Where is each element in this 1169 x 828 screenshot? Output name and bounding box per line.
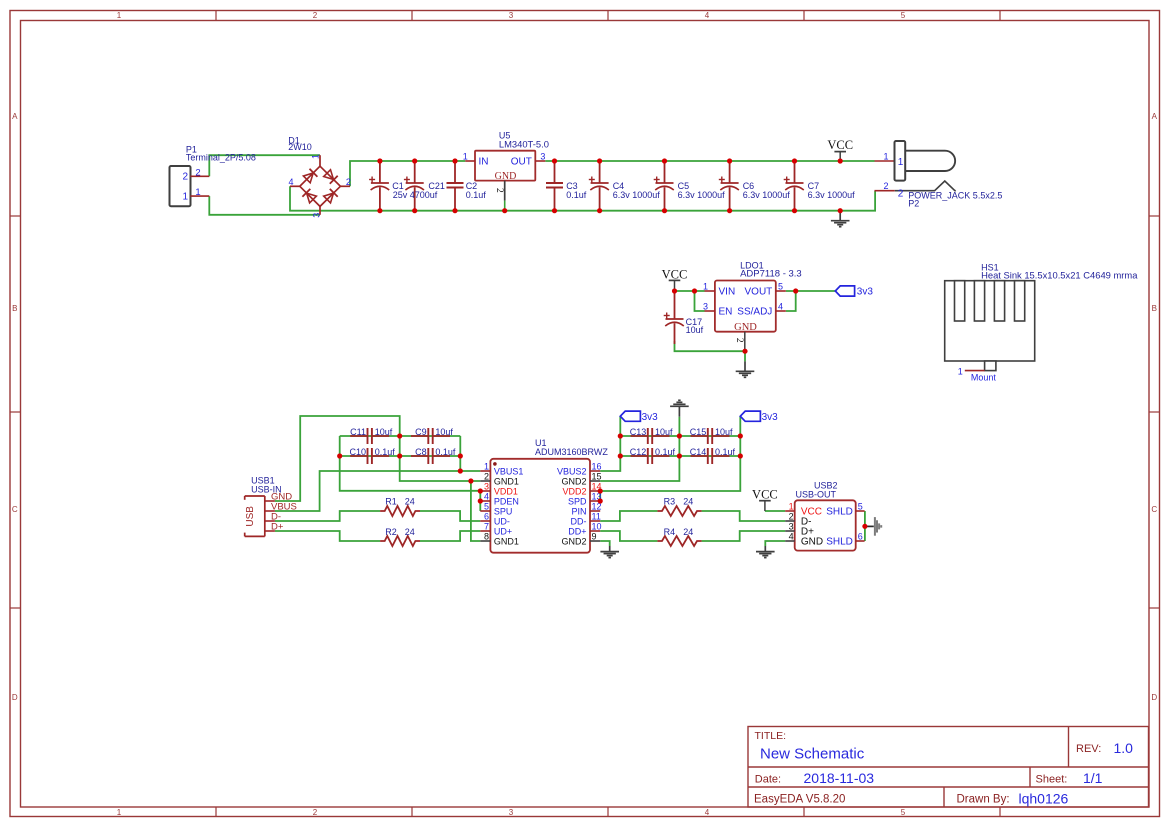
wire cap row C13-C15 [620,435,740,437]
connector P2 POWER_JACK 5.5x2.5 [875,141,1003,209]
svg-text:DD-: DD- [571,516,587,526]
wire VDD2 bus to 3v3 column [600,416,740,491]
svg-text:2: 2 [494,188,504,193]
svg-text:2: 2 [484,472,489,482]
svg-text:ADUM3160BRWZ: ADUM3160BRWZ [535,447,608,457]
svg-text:VCC: VCC [752,488,778,502]
svg-text:UD+: UD+ [494,526,512,536]
heat sink HS1 [945,263,1139,383]
svg-text:4: 4 [288,177,293,187]
svg-text:1: 1 [117,808,122,817]
svg-text:R2: R2 [385,527,397,537]
svg-text:USB-OUT: USB-OUT [796,490,837,500]
capacitor C14 0.1uf [690,447,736,464]
capacitor C4 6.3v 1000uf [589,161,660,211]
ground (LDO) [736,351,755,377]
svg-text:C12: C12 [630,447,647,457]
svg-text:VIN: VIN [719,286,736,297]
svg-text:VBUS1: VBUS1 [494,466,524,476]
svg-text:3v3: 3v3 [642,412,659,423]
svg-text:Date:: Date: [755,774,781,786]
svg-text:GND: GND [801,536,823,547]
svg-text:Sheet:: Sheet: [1036,774,1068,786]
svg-text:24: 24 [405,496,415,506]
svg-text:GND1: GND1 [494,536,519,546]
wire USB1 VBUS to U1 VBUS1 [275,471,480,511]
wire P1.1 to D1.3 [209,196,320,215]
svg-text:4: 4 [705,11,710,20]
capacitor C8 0.1uf [411,447,456,464]
svg-text:VCC: VCC [827,138,853,152]
wire VCC to USB2 [765,510,785,512]
wire P1.2 to D1.1 [209,155,320,176]
svg-text:2: 2 [182,172,188,183]
junction dots power rails [377,158,843,213]
connector P1 Terminal_2P/5.08 [170,145,256,207]
ground (U1 pin9) [600,546,619,558]
svg-text:2: 2 [195,167,200,178]
svg-text:3: 3 [540,151,545,161]
svg-text:8: 8 [484,532,489,542]
capacitor C2 0.1uf [447,161,487,211]
wire EN tie [695,291,705,311]
svg-text:B: B [1152,304,1157,313]
svg-text:4: 4 [705,808,710,817]
net flag VCC (USB2) [752,488,778,511]
svg-text:C13: C13 [630,427,647,437]
svg-text:ADP7118 - 3.3: ADP7118 - 3.3 [740,269,802,280]
svg-text:5: 5 [484,502,489,512]
wire cap row C12-C14 [620,455,740,457]
svg-text:1: 1 [883,151,888,161]
svg-text:GND: GND [734,322,757,333]
svg-text:3: 3 [484,482,489,492]
capacitor C7 6.3v 1000uf [784,161,855,211]
wire SHLD tie [864,511,866,541]
svg-text:1: 1 [182,192,188,203]
svg-text:0.1uf: 0.1uf [655,447,676,457]
svg-text:POWER_JACK 5.5x2.5: POWER_JACK 5.5x2.5 [908,190,1002,200]
wire U1 GND2(9) to ground [600,541,610,546]
capacitor C12 0.1uf [630,447,676,464]
svg-text:6.3v 1000uf: 6.3v 1000uf [613,190,661,200]
svg-text:0.1uf: 0.1uf [435,447,456,457]
svg-text:GND1: GND1 [494,476,519,486]
wire R3 to USB2 D- [702,511,786,521]
svg-text:New Schematic: New Schematic [760,745,865,762]
svg-text:VDD1: VDD1 [494,486,518,496]
svg-text:0.1uf: 0.1uf [466,190,487,200]
svg-text:2018-11-03: 2018-11-03 [804,770,875,786]
wire C9/C8 right column [459,436,461,471]
wire USB1 GND up-over-down to U1 GND1 [275,416,480,501]
resistor R3 24 [657,496,701,516]
connector USB2 USB-OUT [785,481,864,551]
svg-text:C9: C9 [415,427,427,437]
svg-text:16: 16 [592,462,602,472]
wire VOUT to 3v3 [786,290,836,292]
svg-text:C10: C10 [349,447,366,457]
svg-text:C15: C15 [690,427,707,437]
IC U1 ADUM3160BRWZ [480,438,608,553]
svg-text:C: C [12,505,18,514]
resistor R1 24 [380,496,420,516]
svg-text:Mount: Mount [971,372,997,382]
svg-text:1: 1 [898,157,904,168]
ground (C-block, inverted) [670,400,689,416]
svg-text:lqh0126: lqh0126 [1019,790,1069,806]
wire VCC to LDO1.VIN [675,290,705,292]
svg-text:SHLD: SHLD [826,506,853,517]
svg-text:2W10: 2W10 [288,142,312,152]
capacitor C10 0.1uf [349,447,395,464]
svg-text:6.3v 1000uf: 6.3v 1000uf [678,190,726,200]
net flag 3v3 (LDO out) [835,286,873,298]
ground (power bus) [831,211,850,227]
capacitor C21 [393,161,445,211]
svg-text:3: 3 [703,301,708,311]
svg-text:1: 1 [310,154,320,159]
svg-text:5: 5 [901,11,906,20]
svg-text:10uf: 10uf [686,325,704,335]
svg-text:Drawn By:: Drawn By: [957,794,1010,806]
net flag VCC (LDO input) [662,267,688,291]
wire R1 to U1 UD- [420,511,480,521]
svg-text:C8: C8 [415,447,427,457]
capacitor C13 10uf [630,427,673,444]
svg-text:SPD: SPD [568,496,587,506]
wire R4 to USB2 D+ [702,531,786,541]
svg-text:6.3v 1000uf: 6.3v 1000uf [808,190,856,200]
svg-text:24: 24 [405,527,415,537]
svg-text:1: 1 [789,502,794,512]
capacitor C3 0.1uf [546,161,587,211]
svg-text:7: 7 [484,522,489,532]
capacitor C17 10uf [664,291,704,344]
svg-text:SPU: SPU [494,506,513,516]
wire cap row C10-C8 [340,455,461,457]
wire USB1 D+ to R2 [275,531,380,541]
regulator U5 LM340T-5.0 [463,131,549,211]
svg-text:1: 1 [117,11,122,20]
svg-text:6.3v 1000uf: 6.3v 1000uf [743,190,791,200]
svg-text:10uf: 10uf [655,427,673,437]
svg-text:GND2: GND2 [561,476,586,486]
svg-text:A: A [1152,112,1158,121]
svg-text:LM340T-5.0: LM340T-5.0 [499,138,549,149]
svg-text:4: 4 [484,492,489,502]
svg-text:R3: R3 [664,496,676,506]
svg-text:24: 24 [683,496,693,506]
svg-text:IN: IN [479,157,489,168]
svg-text:5: 5 [901,808,906,817]
svg-text:VCC: VCC [662,267,688,281]
wire VDD2-SPD tie [599,491,601,501]
net flag 3v3 (right) [740,411,778,423]
svg-text:P2: P2 [908,199,919,209]
connector USB1 USB-IN [245,476,297,537]
svg-text:3: 3 [509,11,514,20]
wire cap row C11-C9 [340,435,461,437]
svg-text:10: 10 [592,522,602,532]
ground (USB2 GND) [756,546,775,558]
svg-text:6: 6 [858,532,863,542]
capacitor C1 25v 4700uf [369,161,404,211]
svg-text:Heat Sink 15.5x10.5x21 C4649 m: Heat Sink 15.5x10.5x21 C4649 mrma [981,270,1138,281]
svg-text:REV:: REV: [1076,743,1101,755]
bridge rectifier D1 2W10 [288,135,351,218]
svg-text:0.1uf: 0.1uf [715,447,736,457]
svg-text:2: 2 [734,338,744,343]
svg-text:GND: GND [495,171,517,182]
svg-text:10uf: 10uf [435,427,453,437]
svg-text:3: 3 [509,808,514,817]
svg-text:3v3: 3v3 [762,412,779,423]
regulator LDO1 ADP7118-3.3 [703,261,802,352]
svg-text:Terminal_2P/5.08: Terminal_2P/5.08 [186,153,256,163]
svg-text:24: 24 [683,527,693,537]
svg-text:B: B [12,304,17,313]
svg-text:1: 1 [195,187,200,198]
svg-text:VBUS2: VBUS2 [557,466,587,476]
svg-text:SS/ADJ: SS/ADJ [737,306,772,317]
capacitor C9 10uf [411,427,453,444]
svg-text:1: 1 [958,367,963,377]
wire U5.OUT to P2.1 VCC rail [545,160,874,162]
wire VDD1-PDEN-SPU tie [479,491,481,511]
svg-text:10uf: 10uf [715,427,733,437]
svg-text:D+: D+ [271,521,284,532]
svg-text:GND2: GND2 [561,536,586,546]
svg-text:9: 9 [592,532,597,542]
svg-text:USB: USB [245,506,256,527]
wire VDD1 bus [340,436,481,491]
wire D1.2 to U5.IN rail [350,161,465,186]
svg-text:EasyEDA V5.8.20: EasyEDA V5.8.20 [754,794,845,806]
wire U1 VBUS2 to 3v3 column [600,416,620,471]
svg-text:UD-: UD- [494,516,510,526]
svg-text:C14: C14 [690,447,707,457]
wire U1 DD+ to R4 [600,531,657,541]
svg-text:1.0: 1.0 [1114,740,1134,756]
svg-text:C: C [1151,505,1157,514]
svg-text:PIN: PIN [571,506,586,516]
svg-text:1: 1 [484,462,489,472]
svg-text:PDEN: PDEN [494,496,519,506]
svg-text:VDD2: VDD2 [562,486,586,496]
svg-text:1/1: 1/1 [1083,770,1103,786]
junction dots USB section [337,433,867,529]
svg-text:R1: R1 [385,496,397,506]
svg-text:3: 3 [789,522,794,532]
wire USB2 GND to ground [765,541,785,546]
svg-text:10uf: 10uf [375,427,393,437]
wire bottom GND bus [290,186,875,210]
svg-text:C11: C11 [350,427,366,437]
svg-text:A: A [12,112,18,121]
svg-text:3: 3 [311,213,321,218]
wire U1 DD- to R3 [600,511,657,521]
svg-text:2: 2 [789,512,794,522]
net flag VCC (power rail) [827,138,853,161]
svg-text:11: 11 [592,512,601,522]
resistor R4 24 [657,527,701,546]
resistor R2 24 [380,527,420,546]
capacitor C11 10uf [350,427,393,444]
wire R2 to U1 UD+ [420,531,480,541]
shield ground symbol [865,517,881,536]
wire C17 gnd to LDO gnd [675,341,746,351]
svg-text:0.1uf: 0.1uf [375,447,396,457]
svg-text:25v 4700uf: 25v 4700uf [393,190,438,200]
wire GND1 pin2-pin8 tie [471,481,480,541]
wire USB1 D- to R1 [275,511,380,521]
capacitor C6 6.3v 1000uf [719,161,790,211]
title block [748,727,1149,808]
svg-text:2: 2 [313,11,318,20]
svg-text:1: 1 [463,151,468,161]
svg-text:15: 15 [592,472,602,482]
capacitor C15 10uf [690,427,733,444]
svg-text:R4: R4 [664,527,676,537]
svg-text:0.1uf: 0.1uf [566,190,587,200]
svg-text:6: 6 [484,512,489,522]
svg-text:DD+: DD+ [568,526,586,536]
svg-text:2: 2 [883,181,888,191]
svg-text:D: D [12,693,18,702]
svg-text:5: 5 [778,281,783,291]
wire U1 GND2 to ground column [600,417,679,481]
svg-text:1: 1 [703,281,708,291]
svg-text:EN: EN [719,306,733,317]
svg-text:D: D [1151,693,1157,702]
svg-text:4: 4 [778,301,783,311]
svg-text:SHLD: SHLD [826,536,853,547]
svg-text:3v3: 3v3 [857,286,874,297]
wire SS/ADJ tie [786,291,796,311]
junction dots LDO [672,288,798,353]
net flag 3v3 (left) [620,411,658,423]
svg-text:TITLE:: TITLE: [755,730,787,742]
svg-text:2: 2 [898,188,904,199]
svg-text:USB-IN: USB-IN [251,484,282,494]
svg-text:VOUT: VOUT [745,286,773,297]
svg-text:5: 5 [858,502,863,512]
svg-text:4: 4 [789,532,794,542]
svg-text:2: 2 [313,808,318,817]
capacitor C5 6.3v 1000uf [654,161,725,211]
svg-text:2: 2 [346,177,351,187]
svg-text:OUT: OUT [511,157,532,168]
